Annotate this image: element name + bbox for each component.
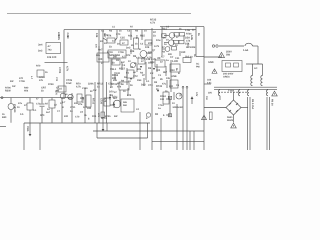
svg-text:R70: R70 (104, 34, 109, 37)
svg-text:6.8k: 6.8k (190, 35, 193, 41)
svg-text:4.7k: 4.7k (66, 66, 69, 72)
svg-text:22u: 22u (96, 54, 101, 57)
svg-text:AC: AC (254, 67, 258, 70)
svg-text:GND: GND (208, 61, 214, 64)
svg-text:4k7: 4k7 (163, 71, 168, 74)
svg-text:B725: B725 (105, 115, 111, 118)
svg-text:R726: R726 (186, 33, 192, 36)
svg-text:C70: C70 (116, 33, 121, 36)
svg-text:4u7: 4u7 (46, 111, 51, 114)
svg-text:47u: 47u (162, 83, 167, 86)
svg-text:220: 220 (64, 115, 69, 118)
svg-text:R10: R10 (80, 97, 85, 100)
svg-text:220: 220 (68, 97, 73, 100)
svg-text:SW-1: SW-1 (110, 68, 117, 71)
svg-text:330: 330 (181, 51, 186, 54)
svg-text:R15: R15 (140, 35, 145, 38)
svg-text:40k: 40k (24, 90, 29, 93)
svg-text:1.5k: 1.5k (185, 29, 191, 32)
svg-text:C21: C21 (175, 57, 180, 60)
svg-text:330: 330 (87, 107, 92, 110)
svg-text:100: 100 (98, 58, 103, 61)
svg-text:C7: C7 (170, 56, 174, 59)
svg-text:C709: C709 (82, 87, 88, 90)
svg-text:SW: SW (226, 54, 231, 57)
svg-text:C703: C703 (58, 67, 61, 74)
svg-text:470: 470 (104, 98, 107, 103)
svg-text:AC: AC (196, 63, 200, 66)
svg-text:R05: R05 (57, 35, 60, 40)
svg-text:10k: 10k (145, 46, 150, 49)
svg-text:12k: 12k (95, 33, 98, 38)
svg-text:4.7k: 4.7k (147, 57, 152, 60)
svg-text:D12: D12 (141, 84, 146, 87)
svg-text:4.7k: 4.7k (154, 45, 160, 48)
svg-text:FB 3.15A: FB 3.15A (251, 99, 254, 110)
svg-text:470: 470 (97, 113, 100, 118)
svg-text:VR2: VR2 (170, 69, 175, 72)
svg-text:R71: R71 (92, 115, 97, 118)
svg-text:R706: R706 (5, 87, 11, 90)
svg-text:220: 220 (169, 85, 174, 88)
svg-text:AREA: AREA (223, 76, 230, 79)
svg-text:C71: C71 (108, 83, 113, 86)
svg-text:LINE: LINE (171, 75, 177, 78)
svg-text:C60: C60 (207, 79, 212, 82)
svg-text:R40: R40 (24, 87, 29, 90)
svg-text:R73: R73 (150, 61, 155, 64)
svg-text:CN: CN (205, 96, 208, 100)
svg-text:10k: 10k (135, 35, 138, 40)
svg-text:2SA: 2SA (185, 37, 190, 40)
svg-text:D601: D601 (227, 116, 233, 119)
svg-text:100: 100 (116, 72, 121, 75)
svg-text:C706: C706 (118, 51, 124, 54)
svg-text:47k: 47k (117, 86, 122, 89)
svg-text:4.7k: 4.7k (76, 86, 81, 89)
svg-text:10k: 10k (166, 77, 171, 80)
svg-text:C708: C708 (19, 80, 25, 83)
svg-text:C70: C70 (75, 116, 80, 119)
svg-text:C70: C70 (55, 77, 58, 82)
svg-text:743: 743 (48, 49, 53, 52)
svg-text:SPEAKER: SPEAKER (173, 106, 184, 109)
svg-text:10u: 10u (156, 39, 161, 42)
svg-text:22k: 22k (113, 79, 118, 82)
svg-text:C72: C72 (186, 40, 191, 43)
svg-text:18V: 18V (208, 92, 213, 95)
svg-text:R708: R708 (48, 83, 54, 86)
svg-text:10uF: 10uF (66, 82, 72, 85)
svg-text:10k 100: 10k 100 (47, 56, 57, 59)
svg-text:47u: 47u (18, 102, 23, 105)
svg-text:1-DR: 1-DR (172, 60, 178, 63)
svg-text:R72: R72 (126, 54, 131, 57)
svg-text:7805: 7805 (26, 126, 29, 132)
svg-text:4.7k: 4.7k (150, 22, 156, 25)
svg-text:T-600: T-600 (228, 90, 235, 93)
svg-text:C25: C25 (120, 37, 125, 40)
svg-text:C71: C71 (36, 103, 41, 106)
svg-text:22k: 22k (74, 102, 79, 105)
svg-text:1N: 1N (110, 94, 113, 97)
svg-text:B: B (139, 48, 141, 51)
svg-text:C73: C73 (148, 84, 153, 87)
svg-text:220: 220 (148, 42, 153, 45)
svg-text:100: 100 (160, 98, 165, 101)
svg-text:R70: R70 (36, 65, 41, 68)
svg-text:220k: 220k (190, 46, 196, 49)
svg-text:R716: R716 (92, 98, 95, 105)
svg-text:R71: R71 (128, 35, 133, 38)
svg-text:R709: R709 (107, 51, 113, 54)
svg-text:B50: B50 (2, 116, 7, 119)
svg-text:R70: R70 (40, 114, 45, 117)
svg-text:C720: C720 (100, 98, 103, 105)
svg-text:47u: 47u (78, 103, 83, 106)
svg-text:220k: 220k (88, 83, 94, 86)
svg-text:0.01: 0.01 (207, 82, 212, 85)
svg-text:FB 2A: FB 2A (271, 99, 274, 106)
svg-text:2120: 2120 (13, 107, 16, 113)
svg-text:47k: 47k (39, 79, 44, 82)
svg-text:12V: 12V (195, 92, 198, 97)
svg-text:2n2: 2n2 (38, 50, 43, 53)
svg-text:C711: C711 (70, 106, 76, 109)
svg-text:DC: DC (179, 93, 182, 97)
svg-text:C72: C72 (133, 75, 138, 78)
svg-text:4.7: 4.7 (161, 56, 165, 59)
svg-text:1N4: 1N4 (137, 79, 142, 82)
svg-text:B: B (178, 72, 180, 75)
svg-text:S5VB: S5VB (227, 119, 233, 122)
svg-text:1.6A: 1.6A (243, 49, 248, 52)
svg-text:3n4: 3n4 (38, 44, 43, 47)
svg-text:R2W: R2W (5, 90, 11, 93)
